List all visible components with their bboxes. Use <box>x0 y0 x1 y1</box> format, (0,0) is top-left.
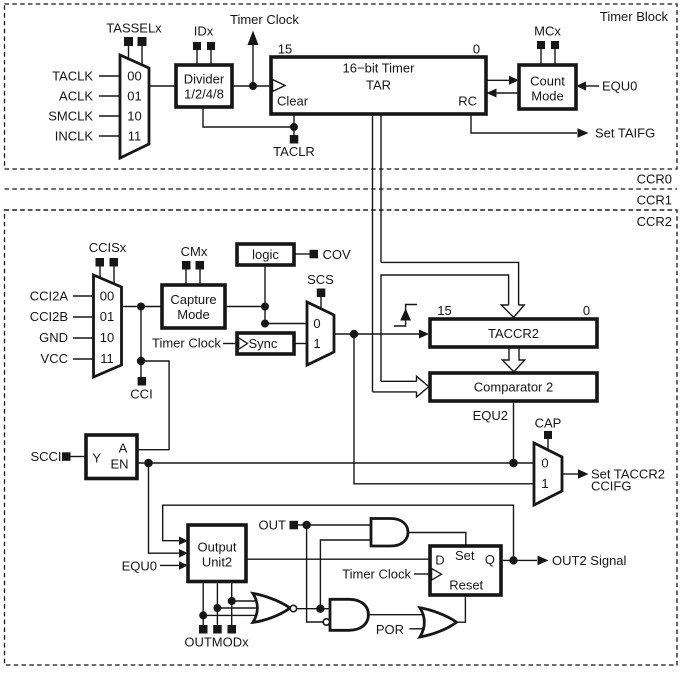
node outmod bit2 junction <box>228 597 236 605</box>
wire EN / EQU2 to CAP mux input 0 <box>137 462 534 464</box>
wire outmod bit1 drop <box>216 582 218 626</box>
wire outmod bit2 to or gate O1 <box>232 600 261 602</box>
svg-text:CCI2A: CCI2A <box>30 289 69 304</box>
wire TASSELx bit0 to mux <box>128 46 130 60</box>
svg-text:Sync: Sync <box>249 336 278 351</box>
svg-text:00: 00 <box>100 289 114 304</box>
svg-text:01: 01 <box>100 309 114 324</box>
arrow into output unit input 3 <box>179 561 188 570</box>
wire CCI2A input <box>73 295 94 297</box>
svg-text:Timer Clock: Timer Clock <box>152 336 221 351</box>
wire capture signal drop <box>354 334 534 484</box>
wire IDx bit1 to divider <box>210 50 212 65</box>
svg-text:CMx: CMx <box>181 244 208 259</box>
square OUTMODx bit0 <box>199 625 208 634</box>
mux U5 capture input select (CCISx) <box>94 275 122 377</box>
wire SCCI to EN latch <box>71 456 87 458</box>
svg-text:Divider: Divider <box>184 72 225 87</box>
svg-text:15: 15 <box>278 42 292 57</box>
svg-text:Count: Count <box>530 74 565 89</box>
svg-text:CCR0: CCR0 <box>637 172 672 187</box>
wire divider output to TAR clock <box>232 85 271 87</box>
register TACCR2 U10 <box>430 319 597 347</box>
mux U1 clock source select (TASSELx) <box>120 55 149 158</box>
net Timer Block boundary <box>5 4 678 169</box>
wire INCLK input <box>99 135 120 137</box>
wire EN drop to output unit <box>149 463 180 553</box>
svg-text:VCC: VCC <box>41 351 68 366</box>
wire MCx bit0 to count mode <box>540 49 542 65</box>
svg-text:OUT2 Signal: OUT2 Signal <box>552 553 627 568</box>
svg-text:Y: Y <box>92 451 101 466</box>
or gate O2 (POR reset) <box>420 608 457 637</box>
svg-text:0: 0 <box>313 316 320 331</box>
wire CAP mux output <box>562 473 578 475</box>
wire CCISx bit0 to mux <box>99 267 101 279</box>
svg-text:A: A <box>119 441 128 456</box>
svg-text:MCx: MCx <box>534 24 561 39</box>
glyph capture edge arrow <box>400 309 411 321</box>
svg-text:CCIFG: CCIFG <box>591 479 631 494</box>
latch U12 Y/A/EN <box>86 435 137 479</box>
wire Q output <box>502 559 538 561</box>
wire outmod bit0 to or gate O1 <box>203 614 261 616</box>
wire outmod bit2 drop <box>231 582 233 626</box>
svg-text:EN: EN <box>110 457 128 472</box>
wire output unit to D input <box>246 558 430 560</box>
node mode0 junction <box>316 605 324 613</box>
svg-text:CCR2: CCR2 <box>637 214 672 229</box>
svg-text:Q: Q <box>485 552 495 567</box>
svg-text:ACLK: ACLK <box>59 89 93 104</box>
svg-text:TACLR: TACLR <box>273 144 315 159</box>
node TACLR junction <box>290 123 298 131</box>
wire outmod bit1 to or gate O1 <box>217 607 258 609</box>
sync block U9 <box>237 333 294 354</box>
svg-text:TACCR2: TACCR2 <box>488 326 539 341</box>
svg-text:TASSELx: TASSELx <box>106 21 162 36</box>
svg-text:TAR: TAR <box>366 78 391 93</box>
wire EQU0 into count mode <box>585 85 599 87</box>
square SCCI <box>62 452 71 461</box>
wire VCC input <box>73 358 94 360</box>
square MCx bit1 <box>551 41 559 49</box>
wire SCS mux output to TACCR2 capture <box>334 333 420 335</box>
squares OUTMODx <box>199 625 236 634</box>
svg-text:Capture: Capture <box>170 292 216 307</box>
arrow hollow TACCR2 to comparator 2 <box>502 348 524 372</box>
svg-text:Mode: Mode <box>177 307 210 322</box>
svg-text:Timer Clock: Timer Clock <box>230 12 299 27</box>
wire SMCLK input <box>99 115 120 117</box>
wire timer clock to flip-flop <box>414 573 430 575</box>
capture mode U6 <box>162 285 225 328</box>
net CCR0 boundary line <box>5 188 678 190</box>
divider U2 <box>176 65 232 107</box>
net CCR1 boundary line <box>5 209 678 211</box>
svg-text:RC: RC <box>458 94 477 109</box>
wire SCS square to mux <box>320 297 322 309</box>
wire divider bottom to TACLR node <box>203 107 294 127</box>
and gate A1 <box>371 519 408 547</box>
arrow Set TACCR2 CCIFG <box>578 469 589 478</box>
svg-text:TACLK: TACLK <box>52 69 93 84</box>
wire GND input <box>73 337 94 339</box>
svg-text:SCS: SCS <box>307 272 334 287</box>
wire RC to Set TAIFG <box>471 114 577 133</box>
wire TACLR node to TAR clear <box>293 114 295 127</box>
svg-text:Set: Set <box>455 548 475 563</box>
square OUTMODx bit2 <box>228 625 237 634</box>
wire POR to or O2 <box>410 628 426 630</box>
pin flip-flop clock triangle <box>432 569 442 581</box>
square OUTMODx bit1 <box>213 625 222 634</box>
wire EQU2 from comparator <box>513 402 515 464</box>
wire MCx bit1 to count mode <box>554 49 556 65</box>
bubble or O1 output <box>290 605 296 611</box>
logic block U8 <box>237 244 294 265</box>
node CCIS mux output junction <box>137 303 145 311</box>
svg-text:CCI2B: CCI2B <box>30 309 68 324</box>
wire CMx bit1 to capture mode <box>199 270 201 286</box>
svg-text:GND: GND <box>39 330 68 345</box>
wire OUT drop to nand A2 bubble <box>307 525 324 622</box>
wire mode0 riser to and gate A1 <box>320 540 371 609</box>
wire bus branch to comparator (top) <box>381 380 417 382</box>
wire capture mode output <box>225 306 265 308</box>
output unit2 U14 <box>188 525 246 582</box>
wire TASSELx bit1 to mux <box>141 46 143 66</box>
svg-text:0: 0 <box>473 42 480 57</box>
wire logic to COV square <box>294 253 310 255</box>
wire TAR bus left side <box>372 115 374 392</box>
arrow into output unit input 1 <box>179 537 188 546</box>
square MCx bit0 <box>537 41 545 49</box>
svg-text:01: 01 <box>127 89 141 104</box>
mux U7 SCS select <box>307 302 334 365</box>
svg-text:CCR1: CCR1 <box>637 193 672 208</box>
svg-text:1: 1 <box>541 476 548 491</box>
square TACLR <box>290 135 299 144</box>
square CMx bit1 <box>196 261 205 270</box>
wire OUT square to junction <box>298 524 307 526</box>
square OUT <box>290 521 299 530</box>
square CCISx bit0 <box>96 258 105 267</box>
square CAP <box>544 431 552 439</box>
svg-text:16−bit Timer: 16−bit Timer <box>343 61 416 76</box>
svg-text:10: 10 <box>127 109 141 124</box>
svg-text:OUTMODx: OUTMODx <box>184 635 249 650</box>
node SCS mux output junction <box>350 330 359 339</box>
arrow count mode to TAR <box>487 89 497 98</box>
arrow EQU0 into count mode <box>576 82 586 91</box>
node outmod bit1 junction <box>213 604 221 612</box>
node EN output junction <box>144 459 153 468</box>
svg-text:SMCLK: SMCLK <box>48 109 93 124</box>
square CCI <box>138 377 147 386</box>
nand gate A2 <box>330 599 368 630</box>
wire CCI square stub <box>140 361 142 377</box>
node OUT junction <box>302 521 310 529</box>
wire CCIS mux output to capture mode <box>122 306 163 308</box>
square TASSELx bit0 <box>124 37 133 46</box>
svg-text:INCLK: INCLK <box>55 129 94 144</box>
count mode U4 <box>519 65 576 109</box>
svg-text:0: 0 <box>583 303 590 318</box>
node SCS mux input 0 junction <box>261 320 269 328</box>
wire CCI2B input <box>73 316 94 318</box>
wire CMx bit0 to capture mode <box>185 270 187 286</box>
arrow Set TAIFG <box>578 128 589 138</box>
node Q output junction <box>509 556 517 564</box>
or gate O1 (outmod decode) <box>253 593 290 622</box>
wire EQU0 to output unit <box>160 564 180 566</box>
wire timer clock to sync <box>223 343 237 345</box>
svg-text:0: 0 <box>541 456 548 471</box>
square COV <box>310 250 319 258</box>
wire CCI to A input of EN latch <box>137 361 169 450</box>
wire TACLK input <box>99 75 120 77</box>
svg-text:Comparator 2: Comparator 2 <box>474 380 553 395</box>
bubble nand A2 input <box>323 619 329 625</box>
wire mux U1 output to divider <box>149 85 176 87</box>
wire or O2 output to Reset <box>457 595 466 622</box>
wire nand A2 output to or O2 <box>368 614 426 616</box>
svg-text:Set TAIFG: Set TAIFG <box>595 126 655 141</box>
wire timer clock riser <box>252 44 254 86</box>
svg-text:Unit2: Unit2 <box>202 555 232 570</box>
square SCS <box>317 289 326 298</box>
svg-text:COV: COV <box>323 247 352 262</box>
square IDx bit0 <box>193 42 201 50</box>
svg-text:11: 11 <box>100 351 114 366</box>
svg-text:IDx: IDx <box>194 24 214 39</box>
svg-text:D: D <box>435 553 444 568</box>
arrow hollow into comparator 2 left <box>417 376 429 397</box>
svg-text:Clear: Clear <box>277 94 309 109</box>
arrow timer clock (up) <box>248 31 259 46</box>
svg-text:SCCI: SCCI <box>30 449 61 464</box>
svg-text:Timer Block: Timer Block <box>600 9 669 24</box>
svg-text:1/2/4/8: 1/2/4/8 <box>184 87 224 102</box>
wire CAP square to mux <box>547 439 549 451</box>
pin sync clock triangle <box>239 338 248 349</box>
arrow hollow into TACCR2 top <box>501 305 524 317</box>
svg-text:00: 00 <box>127 69 141 84</box>
wire OUT2 feedback to output unit <box>163 505 514 560</box>
wire ACLK input <box>99 95 120 97</box>
wire bus branch to TACCR2 (inner) <box>381 275 509 381</box>
svg-text:15: 15 <box>437 303 451 318</box>
wire IDx bit0 to divider <box>196 50 198 65</box>
square TASSELx bit1 <box>138 37 147 46</box>
wire or O1 bubble to nand A2 <box>297 608 330 610</box>
svg-text:CAP: CAP <box>535 416 562 431</box>
flip-flop U15 D/Set/Reset/Q <box>430 546 501 595</box>
arrow capture into TACCR2 <box>419 330 429 339</box>
svg-text:EQU2: EQU2 <box>473 408 508 423</box>
wire sync to SCS mux input 1 <box>294 343 307 345</box>
svg-text:10: 10 <box>100 330 114 345</box>
arrow TAR to count mode <box>509 76 519 85</box>
wire and A1 output to Set <box>408 533 466 547</box>
glyph capture edge symbol <box>394 305 417 327</box>
svg-text:1: 1 <box>313 336 320 351</box>
wire CCISx bit1 to mux <box>113 267 115 285</box>
node EQU2 junction <box>509 459 518 468</box>
arrow into output unit input 2 <box>179 549 188 558</box>
svg-text:11: 11 <box>128 129 142 144</box>
node CCI junction <box>137 357 145 365</box>
wire bus branch to TACCR2 (outer) <box>381 262 519 305</box>
node timer clock junction <box>249 82 257 90</box>
mux U1 input select squares (TASSELx) <box>124 37 559 144</box>
square IDx bit1 <box>207 42 215 50</box>
svg-text:EQU0: EQU0 <box>602 79 637 94</box>
16-bit timer TAR U3 <box>271 57 486 114</box>
wire OUT to and gate A1 <box>307 524 371 526</box>
wire to SCS mux input 0 <box>265 323 307 325</box>
node outmod bit0 junction <box>199 611 207 619</box>
square CCISx bit1 <box>110 258 119 267</box>
svg-text:EQU0: EQU0 <box>122 558 157 573</box>
node capture mode output junction <box>261 303 269 311</box>
wire bus branch to comparator (bottom) <box>373 391 417 393</box>
wire CCI drop <box>140 307 142 362</box>
wire TAR to count mode <box>486 79 510 81</box>
wire logic drop to SCS mux input 0 <box>264 265 266 324</box>
net CCR2 boundary <box>5 210 678 665</box>
pin TAR clock triangle <box>273 80 286 92</box>
svg-text:CCI: CCI <box>130 387 152 402</box>
square CMx bit0 <box>182 261 191 270</box>
svg-text:Reset: Reset <box>449 578 483 593</box>
svg-text:CCISx: CCISx <box>89 240 127 255</box>
svg-text:OUT: OUT <box>259 518 287 533</box>
mux U13 CAP select <box>534 443 562 505</box>
svg-text:logic: logic <box>252 247 279 262</box>
svg-text:Output: Output <box>197 540 236 555</box>
svg-text:Timer Clock: Timer Clock <box>342 567 411 582</box>
comparator 2 U11 <box>430 373 597 401</box>
svg-text:Mode: Mode <box>531 89 564 104</box>
svg-text:POR: POR <box>376 622 404 637</box>
wire count mode to TAR <box>496 92 519 94</box>
arrow OUT2 signal <box>538 556 549 566</box>
wire outmod bit0 drop <box>202 582 204 626</box>
wire TACLR square stub <box>293 127 295 135</box>
wire TAR bus right side <box>380 115 382 262</box>
